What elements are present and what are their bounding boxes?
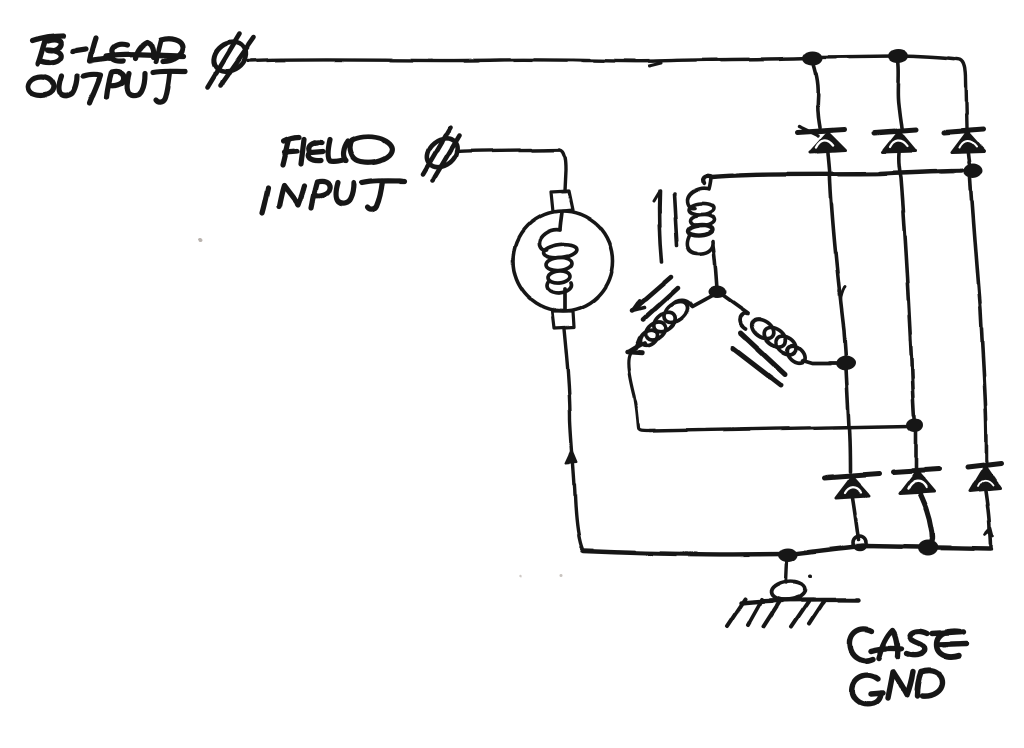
loop junction B1 bbox=[854, 537, 867, 550]
wire node to diode B1 bbox=[846, 368, 850, 472]
diode T3 bbox=[944, 129, 984, 152]
wire B1 to ground bus bbox=[853, 498, 859, 540]
core marks near phase1 bbox=[654, 191, 677, 262]
node dot phase1 bbox=[964, 164, 983, 179]
brush bottom bbox=[552, 311, 574, 328]
node dot bus1 bbox=[803, 51, 823, 65]
wire B3 to ground bus bbox=[986, 491, 991, 549]
wire stub col1 kink bbox=[841, 286, 845, 306]
ground loop bbox=[771, 580, 806, 602]
label CASE GND bbox=[850, 629, 966, 704]
wire T3 anode down to phase1 node bbox=[968, 153, 970, 171]
wire phase1 horizontal bbox=[703, 171, 962, 183]
speck bbox=[808, 574, 812, 578]
speck bbox=[519, 576, 521, 578]
wire B+ bus bbox=[248, 56, 967, 128]
node dot ground main bbox=[778, 548, 798, 562]
stator coil phase2 bbox=[723, 296, 838, 366]
node dot stator center bbox=[708, 286, 726, 299]
arrow phase3 end bbox=[627, 338, 642, 353]
node dot bus2 bbox=[888, 49, 908, 63]
arrow mark field wire bbox=[566, 450, 577, 463]
core marks near phase3 bbox=[633, 277, 678, 319]
speck bbox=[198, 238, 202, 242]
rotor coil bbox=[539, 212, 578, 310]
diode B1 bbox=[824, 474, 879, 498]
ground stem bbox=[786, 560, 787, 583]
diode T1 bbox=[797, 126, 846, 152]
wire phase1 node down to diode B3 bbox=[970, 178, 986, 461]
label B-LEAD OUTPUT bbox=[29, 36, 186, 103]
wire top diode column 2 bbox=[898, 60, 902, 128]
brush top bbox=[551, 191, 573, 212]
ground bar bbox=[741, 600, 858, 603]
label FIELD INPUT bbox=[262, 136, 404, 213]
terminal field bbox=[421, 128, 462, 180]
wire field return bbox=[564, 329, 583, 551]
wire field input bbox=[456, 150, 566, 191]
wire T2 anode down to mid-wire node bbox=[899, 153, 915, 424]
terminal B-lead bbox=[208, 34, 254, 87]
node dot mid-wire bbox=[907, 418, 924, 432]
wire ground bus bbox=[583, 551, 784, 554]
diode B2 bbox=[893, 469, 939, 493]
wire T1 anode down to phase2 node bbox=[828, 153, 846, 362]
node dot phase2 bbox=[836, 356, 856, 371]
stator coil phase3 bbox=[634, 296, 712, 349]
wire top diode column 1 bbox=[813, 62, 820, 127]
rotor circle bbox=[513, 211, 613, 311]
wire mid horizontal bbox=[650, 426, 911, 431]
wire B2 to ground bus bbox=[920, 494, 932, 545]
diode B3 bbox=[967, 463, 1001, 491]
wire phase3 down bbox=[628, 354, 650, 431]
stator coil phase1 bbox=[687, 176, 717, 289]
wire node to diode B2 bbox=[914, 432, 918, 468]
core marks near phase2 bbox=[733, 333, 785, 385]
diode T2 bbox=[875, 130, 916, 152]
speck bbox=[560, 574, 563, 577]
node dot ground B2 bbox=[918, 540, 938, 556]
ground hatches bbox=[727, 599, 824, 627]
